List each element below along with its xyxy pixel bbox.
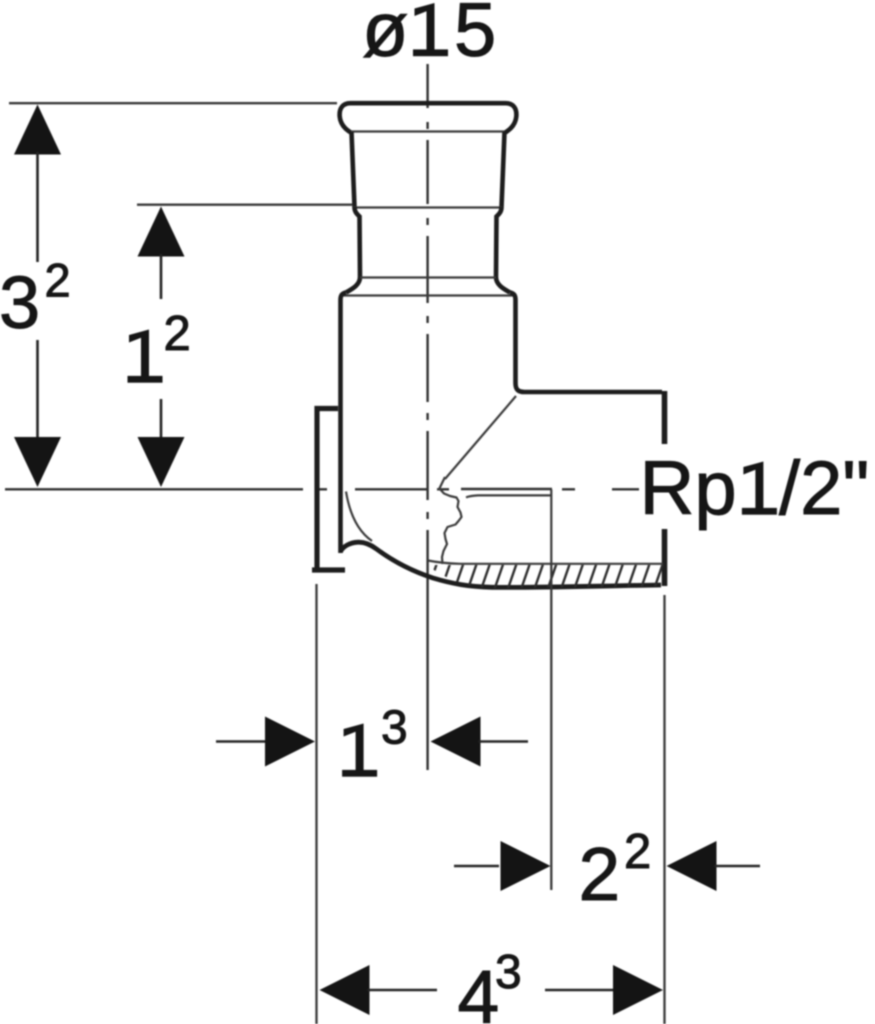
bead bottom inner line — [351, 130, 504, 132]
socket neck left — [346, 207, 360, 293]
socket step line — [353, 206, 502, 208]
vertical centerline solid extension to 1-3 dimension — [426, 530, 428, 770]
inner bore arc of elbow — [346, 492, 372, 542]
extension line flange face (vertical) — [315, 584, 317, 1024]
text 1 of 1-2 (footed) — [128, 330, 163, 383]
svg-text:/2": /2" — [779, 446, 869, 531]
neck bottom line — [360, 276, 496, 278]
extension line second (socket step level) — [137, 204, 352, 206]
svg-text:5: 5 — [454, 0, 496, 73]
svg-text:3: 3 — [495, 946, 522, 999]
svg-text:Rp: Rp — [640, 446, 737, 531]
socket neck right — [496, 207, 510, 293]
dimension 1-2 shaft — [160, 254, 163, 439]
svg-text:2: 2 — [624, 825, 651, 879]
body right wall and outlet top — [510, 293, 662, 393]
dimension 1-3 left tail — [216, 740, 268, 743]
dimension 1-3 right arrow — [431, 717, 481, 767]
extension line thread end (vertical) — [550, 564, 552, 891]
outlet mouth edge lower segment — [662, 529, 668, 586]
thread end vertical line — [550, 490, 552, 564]
svg-text:2: 2 — [164, 307, 191, 361]
thread hatch strokes — [413, 555, 679, 594]
section break jagged line — [439, 477, 461, 564]
body shoulder line — [343, 294, 513, 296]
socket wall right — [502, 132, 505, 207]
dimension 2-2 right tail — [715, 865, 761, 868]
svg-text:3: 3 — [381, 702, 408, 755]
horizontal centerline segments — [5, 488, 639, 490]
text 1 of Rp1/2 (footed) — [742, 462, 777, 515]
svg-text:4: 4 — [458, 955, 500, 1024]
wall flange — [312, 409, 345, 571]
dimension 3-2 arrow up — [14, 105, 61, 155]
svg-text:2: 2 — [45, 254, 71, 307]
dimension 2-2 left arrow — [501, 841, 551, 891]
svg-text:3: 3 — [0, 261, 40, 344]
svg-text:2: 2 — [579, 832, 621, 916]
dimension 3-2 arrow down — [14, 437, 61, 487]
extension line mouth (vertical) — [663, 595, 665, 1024]
dimension 1-2 arrow up — [138, 207, 185, 257]
dimension 4-3 left shaft — [368, 989, 438, 992]
body left wall — [341, 293, 347, 554]
extension line top (bead top level) — [9, 102, 337, 104]
dimension 2-2 right arrow — [667, 841, 717, 891]
dimension 2-2 left tail — [454, 865, 499, 868]
svg-text:ø: ø — [362, 0, 408, 73]
text 1 of 1-3 (footed) — [342, 724, 377, 777]
hatch band top line (thread bore) — [428, 561, 663, 564]
dimension 4-3 right arrow — [613, 965, 663, 1015]
thread crest line — [461, 488, 552, 490]
press socket bead — [340, 103, 517, 133]
thread root line — [466, 495, 552, 497]
elbow bottom outer profile — [341, 542, 662, 587]
dimension 4-3 right shaft — [545, 989, 613, 992]
vertical centerline (dash-dot) — [426, 64, 428, 519]
inner diagonal transition line — [445, 396, 516, 479]
dimension 3-2 shaft — [36, 152, 39, 439]
dimension 4-3 left arrow — [320, 965, 370, 1015]
dimension 1-3 left arrow — [265, 717, 315, 767]
label ø15 digit 1 (footed) — [413, 3, 448, 56]
dimension 1-2 arrow down — [138, 437, 185, 487]
outlet mouth edge upper segment — [662, 391, 668, 444]
dimension 1-3 right tail — [479, 740, 529, 743]
socket wall left — [352, 132, 355, 207]
